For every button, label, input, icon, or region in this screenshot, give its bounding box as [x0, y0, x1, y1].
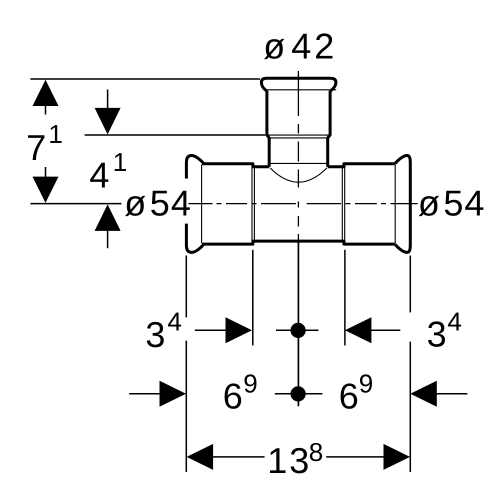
extension line left tube stop [252, 250, 254, 346]
dimension line 13-8 right segment [326, 456, 385, 458]
thin junction line of top flare [266, 89, 336, 91]
tee fitting body: left press-socket flare (upper part, broken by label) [186, 156, 204, 179]
svg-text:ø42: ø42 [263, 25, 337, 66]
thin junction line of right flare [394, 165, 396, 244]
tube stop mark right socket (double thin lines) [342, 165, 344, 242]
dimension line 13-8 left segment [212, 456, 265, 458]
tee fitting branch: left wall of top socket and branch pipe [267, 91, 269, 167]
tee fitting body: barrel top right segment and right socket top [328, 164, 395, 167]
tee fitting body: right press-socket flare [395, 156, 411, 253]
extension line right tube stop [344, 250, 346, 346]
svg-text:13: 13 [267, 440, 311, 481]
svg-text:8: 8 [309, 437, 323, 467]
svg-text:3: 3 [145, 314, 165, 355]
tee fitting body: left socket top and barrel top to branch left wall [202, 164, 269, 167]
arrowhead 3-4 left pointing right [226, 317, 253, 343]
extension line right fitting end (lower part) [409, 342, 411, 472]
tee fitting branch: top flare (press end bulge) [261, 78, 336, 91]
arrowhead 13-8 left pointing left [187, 444, 214, 470]
svg-text:9: 9 [243, 369, 257, 399]
svg-text:6: 6 [339, 376, 359, 417]
4-1 arrow tails [107, 90, 109, 249]
7-1 arrow tails [45, 104, 47, 179]
tee fitting body: left press-socket flare (lower part) [186, 224, 204, 253]
arrowhead 4-1 down (tip at 4-1 line) [95, 108, 121, 134]
arrowhead 7-1 down [33, 177, 59, 203]
vertical centerline (dash-dot) through branch [297, 71, 299, 241]
svg-text:4: 4 [447, 306, 461, 336]
arrowhead 13-8 right pointing right [384, 444, 411, 470]
dimension line 3-4 right [371, 329, 401, 331]
tube stop mark top socket (double thin lines) [268, 135, 328, 138]
dimension line 6-9 right [436, 393, 467, 395]
svg-text:6: 6 [223, 376, 243, 417]
tube stop mark left socket (double thin lines) [252, 165, 254, 242]
center reference dot lower [291, 386, 306, 401]
dimension line: top of branch (7-1 upper reference) [30, 78, 260, 80]
dimension line 6-9 left [129, 393, 160, 395]
tee fitting branch: right wall of top socket and branch pipe [328, 91, 330, 167]
dimension line stub through upper center dot [276, 329, 318, 331]
arrowhead 7-1 up [33, 80, 59, 106]
svg-text:9: 9 [359, 369, 373, 399]
arrowhead 3-4 right pointing left [345, 317, 372, 343]
center reference dot upper [291, 323, 306, 338]
horizontal centerline (dash-dot) through fitting [188, 203, 417, 205]
dimension line: 4-1 upper reference at tube stop level [85, 134, 266, 136]
svg-text:4: 4 [167, 306, 181, 336]
extension line right fitting end (upper part) [409, 256, 411, 313]
svg-text:3: 3 [427, 313, 447, 354]
svg-text:1: 1 [48, 119, 62, 149]
barrel crown line through branch opening [270, 162, 327, 164]
svg-text:7: 7 [26, 127, 46, 168]
saddle arc where branch meets barrel [270, 168, 327, 182]
extension line left fitting end (lower part) [185, 341, 187, 472]
arrowhead 6-9 right pointing left [410, 381, 437, 407]
dimension line: centerline level solid segment (7-1 / 4-1 lower reference) [30, 203, 121, 205]
dimension line 3-4 left [195, 329, 227, 331]
arrowhead 6-9 left pointing right [160, 381, 187, 407]
svg-text:ø54: ø54 [124, 182, 192, 223]
vertical center extension line (solid) below fitting [297, 241, 299, 406]
dimension line stub through lower center dot [275, 393, 323, 395]
arrowhead 4-1 up (tip at centerline) [95, 204, 121, 231]
svg-text:1: 1 [113, 147, 127, 177]
svg-text:4: 4 [89, 154, 109, 195]
thin junction line of left flare [201, 165, 203, 244]
extension line left fitting end (upper part) [185, 256, 187, 318]
tee fitting body: left socket bottom, barrel bottom, right socket bottom [202, 241, 395, 244]
svg-text:ø54: ø54 [418, 183, 486, 224]
